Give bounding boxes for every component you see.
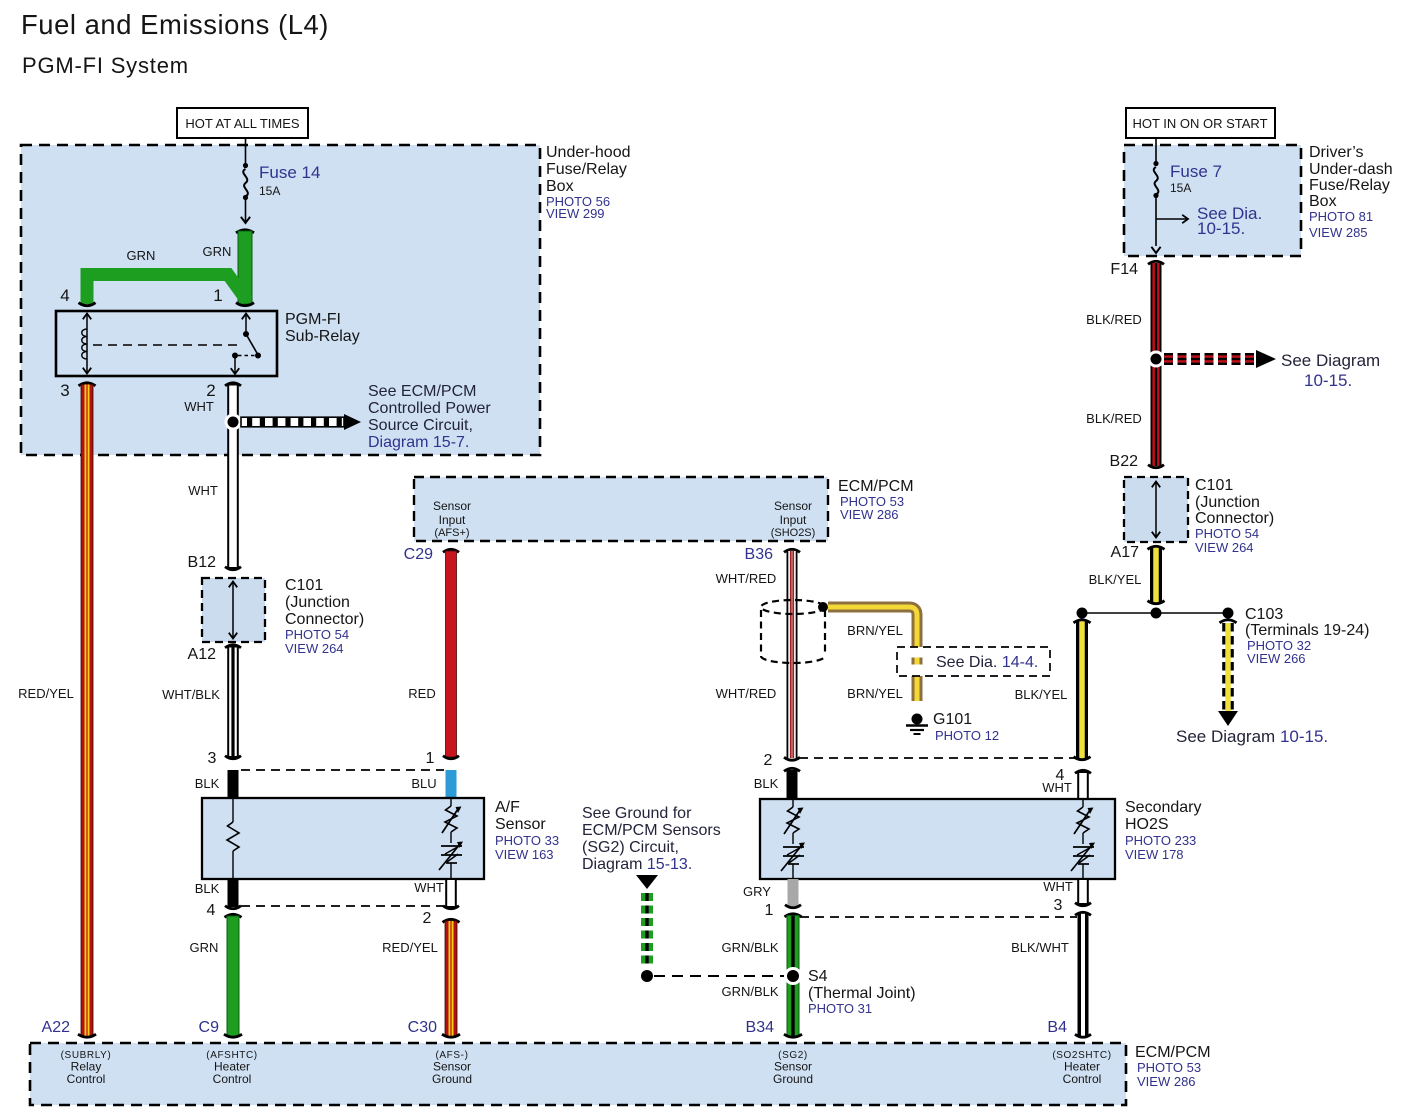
wire RED C29 to A/F sensor pin 1: [443, 549, 459, 552]
svg-text:BLK: BLK: [754, 776, 779, 791]
svg-text:ECM/PCM: ECM/PCM: [838, 478, 914, 495]
svg-text:VIEW 163: VIEW 163: [495, 847, 554, 862]
svg-text:Under-dash: Under-dash: [1309, 161, 1393, 178]
svg-text:Controlled Power: Controlled Power: [368, 400, 491, 417]
svg-text:HOT AT ALL TIMES: HOT AT ALL TIMES: [185, 116, 299, 131]
svg-text:(Terminals 19-24): (Terminals 19-24): [1245, 622, 1369, 639]
reference box See Dia. 14-4: [897, 647, 1050, 676]
wire GRN/BLK HO2S pin 1 to B34: [785, 914, 802, 917]
dashed BLK/RED arrow See Diagram 10-15: [1164, 353, 1173, 365]
svg-text:C103: C103: [1245, 606, 1283, 623]
relay coil: [86, 314, 88, 373]
wire WHT HO2S pin 4 stub: [1075, 770, 1091, 773]
svg-text:BRN/YEL: BRN/YEL: [847, 623, 903, 638]
svg-text:(AFS+): (AFS+): [434, 527, 469, 539]
svg-text:BLK: BLK: [195, 776, 220, 791]
relay PGM-FI Sub-Relay: [56, 311, 277, 376]
svg-text:Control: Control: [213, 1072, 252, 1086]
wire BLK HO2S pin 2 stub: [784, 768, 800, 771]
HO2S right element symbols: [1082, 799, 1084, 807]
svg-text:WHT: WHT: [1042, 780, 1072, 795]
svg-text:B36: B36: [745, 546, 774, 563]
svg-text:Box: Box: [546, 178, 574, 195]
svg-text:GRN: GRN: [203, 244, 232, 259]
svg-text:A22: A22: [42, 1019, 71, 1036]
svg-text:VIEW 299: VIEW 299: [546, 206, 605, 221]
svg-text:B4: B4: [1047, 1019, 1067, 1036]
svg-text:Ground: Ground: [432, 1072, 472, 1086]
svg-text:VIEW 178: VIEW 178: [1125, 847, 1184, 862]
svg-text:1: 1: [765, 902, 774, 919]
svg-text:HOT IN ON OR START: HOT IN ON OR START: [1132, 116, 1267, 131]
svg-text:BLK/RED: BLK/RED: [1086, 312, 1142, 327]
HO2S left element symbols: [792, 799, 794, 807]
svg-text:BLK/YEL: BLK/YEL: [1089, 572, 1142, 587]
Under-hood Fuse/Relay Box: [21, 145, 540, 455]
svg-text:Under-hood: Under-hood: [546, 144, 631, 161]
svg-text:PGM-FI System: PGM-FI System: [22, 53, 189, 78]
svg-text:B12: B12: [188, 554, 217, 571]
svg-text:10-15.: 10-15.: [1304, 371, 1352, 390]
Driver's Under-dash Fuse/Relay Box: [1124, 145, 1301, 256]
A/F sensor heater resistor: [232, 798, 234, 822]
svg-text:A12: A12: [188, 646, 217, 663]
svg-text:GRN: GRN: [190, 940, 219, 955]
svg-text:C9: C9: [199, 1019, 220, 1036]
junction node line with three dots: [1082, 612, 1228, 614]
svg-text:1: 1: [213, 286, 222, 305]
svg-text:HO2S: HO2S: [1125, 816, 1169, 833]
svg-text:PGM-FI: PGM-FI: [285, 311, 341, 328]
svg-text:2: 2: [206, 381, 215, 400]
svg-text:BLK/WHT: BLK/WHT: [1011, 940, 1069, 955]
wire BRN/YEL passing through box (redrawn dashes): [912, 658, 923, 665]
svg-text:BRN/YEL: BRN/YEL: [847, 686, 903, 701]
svg-text:C101: C101: [285, 577, 323, 594]
svg-text:PHOTO 81: PHOTO 81: [1309, 209, 1373, 224]
svg-text:VIEW 264: VIEW 264: [285, 641, 344, 656]
wire WHT/BLK A12 to A/F sensor pin 3: [225, 645, 241, 648]
svg-text:F14: F14: [1110, 261, 1138, 278]
svg-text:PHOTO 31: PHOTO 31: [808, 1001, 872, 1016]
svg-text:WHT: WHT: [414, 880, 444, 895]
svg-text:PHOTO 54: PHOTO 54: [285, 627, 349, 642]
svg-text:A17: A17: [1111, 544, 1140, 561]
svg-text:15A: 15A: [259, 184, 280, 198]
svg-text:Sensor: Sensor: [433, 499, 471, 513]
ECM/PCM bottom connector strip: [30, 1043, 1126, 1105]
label box HOT IN ON OR START: [1126, 108, 1275, 138]
Secondary HO2S box: [760, 799, 1115, 879]
svg-text:BLU: BLU: [411, 776, 436, 791]
svg-text:WHT: WHT: [184, 399, 214, 414]
HO2S connector boundary (pins 2,4): [799, 757, 1077, 759]
dashed GRN/BLK reference wire to SG2 ground: [636, 875, 658, 889]
label box HOT AT ALL TIMES: [177, 108, 308, 138]
ECM/PCM sensor-input box: [414, 477, 828, 541]
svg-text:Secondary: Secondary: [1125, 799, 1202, 816]
svg-text:Diagram 15-7.: Diagram 15-7.: [368, 434, 469, 451]
svg-text:PHOTO 233: PHOTO 233: [1125, 833, 1196, 848]
svg-text:Input: Input: [439, 513, 466, 527]
svg-text:Ground: Ground: [773, 1072, 813, 1086]
svg-text:(Junction: (Junction: [1195, 494, 1260, 511]
svg-text:S4: S4: [808, 968, 828, 985]
dashed splice link line: [654, 975, 784, 977]
svg-text:Fuse 7: Fuse 7: [1170, 162, 1222, 181]
svg-text:A/F: A/F: [495, 799, 520, 816]
svg-text:GRY: GRY: [743, 884, 771, 899]
wire BLU pin 1 stub: [446, 770, 457, 798]
svg-text:ECM/PCM: ECM/PCM: [1135, 1044, 1211, 1061]
svg-text:Input: Input: [780, 513, 807, 527]
svg-text:PHOTO 54: PHOTO 54: [1195, 526, 1259, 541]
svg-text:Sensor: Sensor: [774, 499, 812, 513]
svg-text:Connector): Connector): [1195, 510, 1274, 527]
svg-text:2: 2: [764, 752, 773, 769]
svg-text:B34: B34: [746, 1019, 775, 1036]
wire RED/YEL A/F pin 2 to C30: [443, 919, 460, 922]
shielded-wire cylinder symbol: [761, 600, 825, 614]
wire WHT/RED B36 to HO2S pin 2: [784, 549, 800, 552]
svg-text:Fuel and Emissions (L4): Fuel and Emissions (L4): [21, 9, 329, 40]
wire BRN/YEL shield to G101: [828, 607, 917, 701]
junction on BLK/RED wire: [1148, 351, 1165, 368]
wire BLK/WHT HO2S pin 3 to B4: [1075, 912, 1091, 915]
svg-text:10-15.: 10-15.: [1197, 219, 1245, 238]
svg-text:15A: 15A: [1170, 181, 1191, 195]
svg-text:Fuse/Relay: Fuse/Relay: [1309, 177, 1390, 194]
svg-text:4: 4: [207, 902, 216, 919]
svg-text:VIEW 264: VIEW 264: [1195, 540, 1254, 555]
svg-text:Control: Control: [1063, 1072, 1102, 1086]
svg-text:Diagram 15-13.: Diagram 15-13.: [582, 856, 692, 873]
wire BLK/YEL junction to HO2S pin 4: [1074, 620, 1091, 623]
svg-text:BLK/RED: BLK/RED: [1086, 411, 1142, 426]
svg-text:See Dia. 14-4.: See Dia. 14-4.: [936, 654, 1038, 671]
junction on WHT wire: [225, 414, 242, 431]
junction shield to ground wire: [818, 602, 828, 612]
svg-text:3: 3: [208, 750, 217, 767]
svg-text:GRN/BLK: GRN/BLK: [721, 940, 778, 955]
connector C103 dashed reference arrow: [1220, 620, 1237, 623]
svg-text:GRN/BLK: GRN/BLK: [721, 984, 778, 999]
A/F sensor connector boundary (pins 3,1): [241, 769, 444, 771]
connector C101 left (junction connector): [202, 578, 265, 642]
HO2S bottom pins 1,3: [788, 879, 799, 906]
dashed arrow to ECM/PCM power source circuit: [241, 417, 344, 427]
svg-text:PHOTO 12: PHOTO 12: [935, 728, 999, 743]
connector C101 right (junction connector): [1124, 477, 1188, 542]
fuse F7 "Fuse 7 15A": [1155, 137, 1157, 161]
svg-text:RED/YEL: RED/YEL: [382, 940, 438, 955]
svg-text:WHT: WHT: [188, 483, 218, 498]
svg-text:WHT/BLK: WHT/BLK: [162, 687, 220, 702]
svg-text:(SG2) Circuit,: (SG2) Circuit,: [582, 839, 679, 856]
svg-text:Connector): Connector): [285, 611, 364, 628]
relay actuation dashed link: [93, 344, 243, 346]
svg-text:3: 3: [60, 381, 69, 400]
svg-text:BLK: BLK: [195, 881, 220, 896]
svg-text:C101: C101: [1195, 477, 1233, 494]
svg-text:RED: RED: [408, 686, 435, 701]
svg-text:C29: C29: [404, 546, 433, 563]
wire BLK/RED F14 to B22: [1148, 261, 1164, 264]
svg-text:Control: Control: [67, 1072, 106, 1086]
ground G101: [912, 714, 923, 725]
wire GRN from Fuse 14 to relay pin 1: [236, 230, 254, 233]
svg-text:Fuse 14: Fuse 14: [259, 163, 320, 182]
wire GRN relay pin 1 to pin 4 loop: [87, 275, 247, 305]
svg-text:Sensor: Sensor: [495, 816, 546, 833]
svg-text:1: 1: [426, 750, 435, 767]
svg-text:RED/YEL: RED/YEL: [18, 686, 74, 701]
svg-text:G101: G101: [933, 711, 972, 728]
svg-text:ECM/PCM Sensors: ECM/PCM Sensors: [582, 822, 721, 839]
svg-text:See ECM/PCM: See ECM/PCM: [368, 383, 476, 400]
wire BLK pin 3 stub: [228, 770, 239, 798]
svg-text:WHT/RED: WHT/RED: [716, 571, 777, 586]
relay switch contacts: [245, 314, 247, 332]
wire BLK/YEL A17 to junction node: [1148, 546, 1165, 549]
svg-text:Driver’s: Driver’s: [1309, 144, 1364, 161]
svg-text:Fuse/Relay: Fuse/Relay: [546, 161, 627, 178]
wire RED/YEL relay pin 3 to A22: [79, 383, 96, 386]
svg-text:Source Circuit,: Source Circuit,: [368, 417, 473, 434]
svg-text:See Ground for: See Ground for: [582, 805, 692, 822]
svg-text:2: 2: [423, 910, 432, 927]
svg-text:WHT/RED: WHT/RED: [716, 686, 777, 701]
svg-text:(Junction: (Junction: [285, 594, 350, 611]
svg-text:C30: C30: [408, 1019, 437, 1036]
fuse F14 "Fuse 14 15A": [245, 137, 247, 163]
svg-text:PHOTO 33: PHOTO 33: [495, 833, 559, 848]
svg-text:3: 3: [1054, 897, 1063, 914]
splice S4 (Thermal Joint): [784, 967, 802, 985]
wire GRN A/F pin 4 to C9: [225, 914, 242, 917]
svg-text:(SHO2S): (SHO2S): [771, 527, 816, 539]
svg-text:VIEW 266: VIEW 266: [1247, 651, 1306, 666]
svg-text:VIEW 286: VIEW 286: [1137, 1074, 1196, 1089]
svg-text:See Diagram: See Diagram: [1281, 351, 1380, 370]
branch arrow See Dia. 10-15: [1156, 218, 1187, 220]
svg-text:B22: B22: [1110, 453, 1139, 470]
svg-text:See Diagram 10-15.: See Diagram 10-15.: [1176, 727, 1328, 746]
A/F sensor bottom pins 4,2: [228, 879, 239, 907]
svg-text:GRN: GRN: [127, 248, 156, 263]
svg-text:BLK/YEL: BLK/YEL: [1015, 687, 1068, 702]
svg-text:4: 4: [60, 286, 69, 305]
svg-text:WHT: WHT: [1043, 879, 1073, 894]
wire WHT relay pin 2 to B12: [225, 383, 241, 386]
svg-text:VIEW 286: VIEW 286: [840, 507, 899, 522]
A/F Sensor box: [202, 798, 484, 879]
svg-text:(Thermal Joint): (Thermal Joint): [808, 985, 916, 1002]
svg-text:Box: Box: [1309, 193, 1337, 210]
svg-text:PHOTO 53: PHOTO 53: [1137, 1060, 1201, 1075]
svg-text:Sub-Relay: Sub-Relay: [285, 328, 360, 345]
svg-text:VIEW 285: VIEW 285: [1309, 225, 1368, 240]
A/F sensor element symbols: [450, 798, 452, 806]
